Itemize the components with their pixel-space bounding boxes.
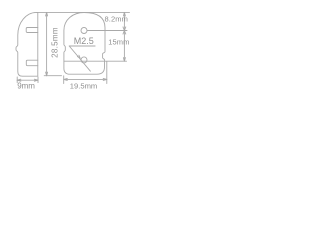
9mm arrow left: [17, 79, 21, 81]
svg-text:9mm: 9mm: [17, 82, 35, 91]
svg-text:28.5mm: 28.5mm: [50, 27, 59, 58]
front view outline: [64, 13, 105, 75]
svg-text:19.5mm: 19.5mm: [70, 81, 97, 90]
8.2mm dimension line: [123, 12, 125, 30]
9mm arrow right: [34, 79, 38, 81]
15mm arrow up: [123, 31, 126, 35]
19.5mm arrow left: [64, 78, 68, 80]
19.5mm extension line left: [63, 76, 65, 84]
top circle leader line (8.2mm bottom reference): [87, 30, 127, 32]
shared top reference line (side top edge + 8.2mm top extension): [36, 11, 129, 13]
28.5mm vertical dimension line: [46, 12, 48, 75]
19.5mm dimension line: [64, 78, 107, 80]
15mm dimension line: [123, 31, 125, 62]
svg-text:8.2mm: 8.2mm: [105, 15, 128, 24]
28.5mm arrow top: [46, 12, 48, 16]
9mm dimension line: [17, 79, 38, 81]
9mm extension line right: [37, 77, 39, 83]
8.2mm arrow down: [123, 27, 126, 31]
19.5mm arrow right: [103, 78, 107, 80]
M2.5 leader line: [69, 46, 90, 71]
side view notch slot upper: [26, 28, 38, 33]
side view outline: [16, 12, 38, 76]
19.5mm extension line right: [106, 62, 108, 84]
M2.5 label underline: [69, 45, 95, 47]
15mm arrow down: [123, 58, 125, 62]
9mm extension line left: [16, 77, 18, 83]
screw hole top circle: [81, 28, 87, 34]
front groove feature line (15mm bottom reference): [64, 60, 127, 62]
28.5mm arrow bottom: [46, 72, 48, 76]
8.2mm arrow up: [123, 12, 125, 16]
svg-text:15mm: 15mm: [108, 38, 129, 47]
screw hole bottom circle M2.5: [81, 57, 87, 63]
M2.5 leader arrowhead: [77, 55, 80, 58]
side view notch slot lower: [26, 60, 38, 65]
svg-text:M2.5: M2.5: [74, 36, 94, 46]
28.5mm bottom extension line: [44, 75, 61, 77]
